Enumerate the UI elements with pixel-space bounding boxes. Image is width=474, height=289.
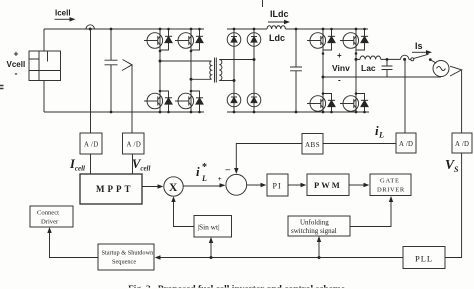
svg-text:iL: iL — [375, 123, 384, 140]
svg-text:Lac: Lac — [361, 63, 376, 73]
wire secondary top lead — [219, 59, 254, 61]
wire iL sense down to A/D — [404, 59, 406, 133]
svg-text:+: + — [337, 51, 342, 60]
wire MPPT to multiplier — [142, 186, 159, 188]
wire tap to unfolding box — [318, 241, 320, 258]
wire unfolding to gate driver — [350, 201, 391, 227]
svg-text:Sequence: Sequence — [112, 259, 136, 266]
diode D7 — [247, 33, 261, 47]
wire leg D inverter — [355, 29, 357, 112]
inductor Ldc — [267, 26, 285, 29]
svg-text:ILdc: ILdc — [270, 9, 289, 19]
wire A/D1 to MPPT — [90, 154, 92, 174]
svg-text:Ldc: Ldc — [269, 33, 285, 43]
wire after Lac — [381, 58, 401, 60]
svg-text:Icell: Icell — [69, 157, 85, 173]
wire PI to PWM — [288, 184, 302, 186]
wire PLL output line — [160, 257, 403, 259]
svg-text:ABS: ABS — [305, 141, 320, 149]
wire A/D2 to MPPT — [132, 154, 134, 174]
wire startup to connect driver — [50, 232, 99, 258]
wire Vs sense down — [461, 70, 463, 133]
svg-text:PWM: PWM — [314, 180, 342, 190]
diode D8 — [247, 93, 261, 107]
svg-text:X: X — [169, 182, 178, 194]
wire cell bottom — [43, 81, 45, 113]
wire primary bottom lead — [191, 78, 212, 80]
svg-text:A /D: A /D — [399, 141, 413, 148]
Vcell probe chevron — [122, 60, 132, 71]
wire ABS to summer — [236, 144, 302, 170]
ILdc arrow — [268, 21, 285, 23]
rectifier leg left — [233, 29, 235, 112]
wire multiplier to summer — [183, 185, 220, 187]
node icell sense — [89, 28, 92, 31]
node dc cap bottom — [295, 111, 298, 114]
capacitor C1 — [105, 29, 118, 112]
node is sense — [403, 58, 406, 61]
wire vcell sense down to A/D — [131, 65, 133, 133]
wire PWM to gate driver — [349, 184, 365, 186]
unfolding switching signal block — [288, 216, 350, 236]
svg-text:PLL: PLL — [415, 254, 433, 264]
diode D2 — [160, 91, 169, 112]
A/D converter 4 — [452, 133, 472, 153]
PWM block — [307, 174, 349, 196]
diode D9 — [323, 29, 332, 50]
node unfolding tap — [318, 256, 321, 259]
page mark top — [262, 0, 264, 7]
svg-text:i: i — [196, 164, 200, 179]
MPPT block — [80, 174, 142, 204]
wire tap to sinwt box — [210, 242, 212, 258]
wire icell sense down to A/D — [90, 29, 92, 133]
junction dots bridge1 — [159, 28, 201, 114]
wire A/D Vs to PLL — [445, 153, 462, 258]
transistor Q2 — [144, 93, 163, 109]
Icell arrow — [55, 18, 71, 20]
svg-text:PI: PI — [273, 182, 282, 191]
wire inverter return — [323, 76, 441, 78]
svg-text:A /D: A /D — [84, 142, 99, 149]
node filter cap top — [386, 58, 389, 61]
svg-text:Connect: Connect — [37, 210, 59, 217]
PLL block — [403, 247, 445, 269]
diode D5 — [227, 33, 241, 47]
switch S1 — [409, 58, 411, 60]
rectifier leg right — [253, 29, 255, 112]
transformer core — [215, 58, 217, 83]
svg-text:A /D: A /D — [127, 142, 142, 149]
fuel cell stack Vcell — [29, 51, 61, 81]
node cap top — [110, 28, 113, 31]
transistor Q5 — [307, 33, 326, 49]
svg-text:|Sin wt|: |Sin wt| — [198, 223, 220, 232]
transistor Q4 — [175, 93, 194, 109]
svg-text:VS: VS — [445, 157, 459, 174]
wire sinwt to multiplier — [174, 201, 195, 227]
svg-text:*: * — [202, 162, 207, 173]
startup shutdown block — [98, 244, 154, 270]
transistor Q8 — [340, 96, 359, 112]
Vs probe chevron — [450, 66, 462, 76]
wire leg B bridge1 — [190, 29, 192, 112]
svg-text:L: L — [201, 174, 207, 183]
svg-text:Icell: Icell — [55, 9, 71, 18]
wire bottom rail left — [44, 111, 204, 113]
junction dots rectifier — [233, 28, 256, 114]
A/D converter 1 — [80, 133, 102, 154]
diode D6 — [227, 93, 241, 107]
ac source Vs — [433, 61, 449, 77]
scan speck left edge — [0, 86, 4, 89]
svg-text:switching signal: switching signal — [291, 227, 337, 235]
svg-text:Startup & Shutdown: Startup & Shutdown — [102, 250, 155, 257]
Is arrow — [412, 51, 427, 53]
current sensor hop Icell — [86, 25, 94, 29]
transistor Q1 — [144, 33, 163, 49]
wire leg C inverter — [322, 29, 324, 112]
diode D1 — [160, 29, 169, 50]
svg-text:Driver: Driver — [41, 219, 59, 226]
transistor Q7 — [340, 33, 359, 49]
svg-text:Vinv: Vinv — [332, 63, 350, 73]
wire secondary bottom lead — [219, 80, 234, 82]
wire rail after Ldc — [285, 28, 368, 30]
diode D4 — [191, 91, 200, 112]
current sensor hop Is — [401, 55, 409, 59]
diode D3 — [191, 29, 200, 50]
filter capacitor — [382, 59, 393, 77]
diode D11 — [356, 29, 365, 50]
wire top rail left — [44, 28, 204, 30]
svg-text:A /D: A /D — [455, 141, 469, 148]
transformer T1 secondary — [219, 60, 222, 81]
transformer T1 primary — [210, 61, 212, 79]
wire summer to PI — [247, 184, 262, 186]
svg-text:MPPT: MPPT — [96, 184, 134, 194]
wire switch to source — [430, 60, 436, 64]
svg-text:+: + — [14, 49, 19, 59]
wire leg A bridge1 — [159, 29, 161, 112]
connect driver block — [30, 206, 73, 227]
diode D10 — [323, 94, 332, 113]
svg-text:–: – — [225, 164, 231, 174]
svg-text:-: - — [15, 69, 18, 79]
wire top rail right — [227, 28, 267, 30]
summing junction — [226, 174, 247, 195]
transistor Q6 — [307, 96, 326, 112]
wire cell top — [43, 29, 45, 51]
svg-text:Unfolding: Unfolding — [300, 219, 329, 227]
A/D converter 3 — [396, 133, 416, 153]
wire A/D iL to ABS — [323, 143, 396, 145]
diode D12 — [356, 94, 365, 113]
sin wt block — [194, 216, 232, 238]
inductor Lac — [360, 56, 381, 59]
node sinwt tap — [210, 256, 213, 259]
svg-text:Is: Is — [415, 41, 423, 51]
dc link capacitor — [290, 29, 302, 112]
A/D converter 2 — [123, 133, 145, 154]
wire bottom rail right — [227, 111, 369, 113]
ABS block — [302, 134, 323, 155]
wire primary top lead — [160, 60, 212, 62]
svg-text:Fig. 2 Proposed fuel cell in: Fig. 2 Proposed fuel cell inverter and c… — [128, 283, 345, 289]
transistor Q3 — [175, 33, 194, 49]
svg-text:Vcell: Vcell — [132, 157, 151, 173]
multiplier X — [164, 177, 183, 196]
svg-text:GATE: GATE — [380, 178, 400, 185]
PI block — [267, 174, 288, 196]
node cap bottom — [110, 111, 113, 114]
gate driver block — [370, 174, 411, 196]
svg-text:+: + — [218, 174, 222, 183]
junction dots inverter — [322, 28, 366, 114]
svg-text:DRIVER: DRIVER — [377, 187, 405, 194]
node dc cap top — [295, 28, 298, 31]
wire inverter out top — [356, 58, 360, 60]
